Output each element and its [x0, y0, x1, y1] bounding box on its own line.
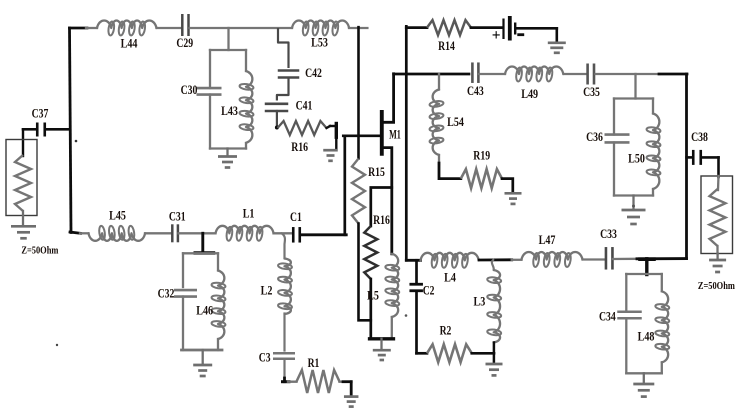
svg-text:L54: L54	[447, 115, 464, 129]
svg-text:R2: R2	[440, 324, 452, 338]
svg-text:C29: C29	[176, 36, 193, 50]
svg-text:C42: C42	[305, 66, 322, 80]
svg-text:R19: R19	[473, 149, 490, 163]
svg-text:R14: R14	[438, 39, 455, 53]
svg-text:R15: R15	[368, 165, 385, 179]
svg-text:C33: C33	[600, 227, 617, 241]
svg-text:L47: L47	[539, 233, 556, 247]
svg-text:L48: L48	[638, 329, 655, 343]
svg-text:L53: L53	[311, 36, 328, 50]
svg-text:L1: L1	[243, 207, 255, 221]
svg-text:C35: C35	[583, 85, 600, 99]
svg-text:C1: C1	[290, 210, 302, 224]
svg-text:C37: C37	[32, 106, 49, 120]
svg-text:C2: C2	[423, 283, 435, 297]
svg-text:L3: L3	[474, 295, 486, 309]
svg-text:C3: C3	[259, 350, 271, 364]
svg-text:C38: C38	[691, 130, 708, 144]
svg-text:M1: M1	[389, 127, 401, 141]
svg-text:R16: R16	[291, 140, 308, 154]
svg-text:C32: C32	[158, 286, 175, 300]
svg-text:L4: L4	[444, 271, 456, 285]
svg-text:C41: C41	[296, 99, 313, 113]
svg-text:L2: L2	[261, 284, 273, 298]
svg-text:L43: L43	[221, 104, 238, 118]
svg-text:C34: C34	[599, 310, 616, 324]
svg-text:Z=50Ohm: Z=50Ohm	[698, 280, 735, 292]
svg-text:C30: C30	[181, 83, 198, 97]
svg-text:L45: L45	[109, 208, 126, 222]
svg-text:R1: R1	[308, 356, 320, 370]
svg-text:L49: L49	[521, 87, 538, 101]
svg-text:Z=50Ohm: Z=50Ohm	[21, 244, 58, 256]
svg-text:+: +	[492, 27, 501, 44]
svg-text:C43: C43	[467, 84, 484, 98]
svg-text:L46: L46	[196, 304, 213, 318]
svg-text:R16: R16	[373, 213, 390, 227]
svg-text:L44: L44	[121, 37, 138, 51]
svg-text:L5: L5	[367, 289, 379, 303]
svg-text:C36: C36	[586, 130, 603, 144]
svg-text:C31: C31	[169, 210, 186, 224]
svg-text:L50: L50	[628, 151, 645, 165]
